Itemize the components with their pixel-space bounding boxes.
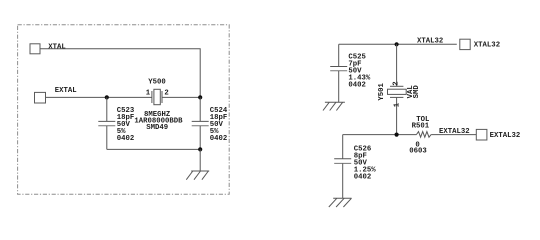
svg-text:XTAL32: XTAL32	[474, 42, 500, 50]
svg-text:SMD49: SMD49	[146, 124, 168, 132]
wire net XTAL: port to C524/Y500 column	[40, 49, 200, 98]
svg-text:0603: 0603	[409, 148, 427, 156]
junction node XTAL32/Y501	[395, 42, 399, 46]
wire to ground	[199, 149, 201, 171]
label C524 values	[210, 107, 228, 143]
svg-text:R501: R501	[412, 123, 430, 131]
wire net EXTAL32 (left of R501)	[343, 134, 417, 136]
svg-text:1: 1	[393, 102, 401, 107]
svg-text:EXTAL32: EXTAL32	[439, 128, 470, 136]
crystal Y500	[152, 89, 162, 104]
svg-text:0402: 0402	[348, 81, 366, 89]
svg-text:EXTAL: EXTAL	[55, 87, 77, 95]
capacitor C524	[192, 97, 209, 149]
junction node XTAL/C524	[198, 95, 202, 99]
capacitor C525	[330, 44, 347, 102]
wire net EXTAL: port to Y500 pin 1	[46, 96, 152, 98]
connector XTAL32	[460, 39, 470, 49]
junction node EXTAL/C523	[105, 95, 109, 99]
capacitor C523	[98, 97, 115, 149]
connector EXTAL32	[476, 129, 487, 140]
capacitor C526	[334, 135, 351, 199]
svg-text:SMD: SMD	[413, 85, 421, 99]
wire Y500 pin 2 to XTAL column	[162, 96, 200, 98]
svg-text:XTAL: XTAL	[48, 44, 66, 52]
label C526 values	[354, 146, 377, 182]
svg-text:0402: 0402	[117, 135, 135, 143]
resistor R501	[416, 132, 431, 138]
svg-text:2: 2	[164, 89, 168, 97]
dashed enclosure box (8MHz oscillator block)	[18, 25, 230, 194]
wire net EXTAL32 (right of R501)	[431, 134, 476, 136]
svg-text:0402: 0402	[210, 135, 228, 143]
junction node ground bus	[198, 147, 202, 151]
label C525 values	[348, 53, 371, 89]
label C523 values	[117, 107, 135, 143]
svg-text:EXTAL32: EXTAL32	[490, 132, 521, 140]
svg-text:0402: 0402	[354, 174, 372, 182]
svg-text:Y501: Y501	[378, 82, 386, 100]
svg-text:XTAL32: XTAL32	[417, 38, 443, 46]
svg-text:2: 2	[393, 81, 401, 85]
ground (chassis) under C526	[329, 198, 352, 207]
connector EXTAL	[35, 92, 46, 103]
ground (chassis) under C525	[323, 102, 345, 110]
ground (chassis) left block	[186, 171, 209, 180]
crystal Y501	[388, 44, 407, 134]
connector XTAL	[30, 44, 40, 54]
junction node Y501/EXTAL32	[395, 133, 399, 137]
svg-text:Y500: Y500	[148, 79, 166, 87]
wire net XTAL32	[339, 43, 457, 45]
wire ground bus C523-C524	[107, 148, 200, 150]
svg-text:1: 1	[146, 89, 151, 97]
